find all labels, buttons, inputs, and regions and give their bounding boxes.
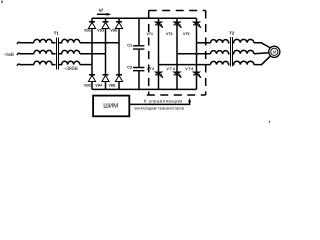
DC link wire with capacitors bbox=[138, 18, 140, 89]
wire secondary row3 to leg1 bbox=[80, 64, 92, 66]
transformer T1 primary winding row2 bbox=[34, 50, 56, 53]
DC bottom rail bbox=[92, 88, 197, 90]
svg-text:VD4: VD4 bbox=[95, 84, 102, 88]
svg-text:~380В: ~380В bbox=[63, 66, 78, 72]
diode VD1 bbox=[88, 22, 95, 29]
noise mark top-left bbox=[1, 1, 3, 4]
wire PWM to inverter bbox=[129, 100, 189, 104]
thyristor VT6 bbox=[193, 72, 201, 78]
capacitor C1 bbox=[133, 46, 144, 49]
transformer T1 core bbox=[57, 38, 59, 70]
svg-text:С1: С1 bbox=[127, 43, 132, 47]
PWM (ШИМ) box bbox=[93, 96, 129, 117]
transformer T2 secondary winding row1 bbox=[232, 39, 254, 42]
svg-text:Т1: Т1 bbox=[54, 31, 60, 36]
transformer T2 primary winding row3 bbox=[211, 61, 230, 64]
svg-text:VT3: VT3 bbox=[166, 32, 172, 36]
thyristor VT5 bbox=[193, 22, 201, 28]
svg-text:ШИМ: ШИМ bbox=[103, 102, 118, 109]
DC top rail bbox=[92, 17, 197, 19]
wire phase B input bbox=[17, 53, 34, 55]
wire inverter leg1 to T2 row3 bbox=[159, 64, 211, 66]
rectifier leg 2 bbox=[105, 18, 107, 89]
svg-text:VD6: VD6 bbox=[109, 84, 116, 88]
svg-text:К управляющим: К управляющим bbox=[144, 99, 183, 104]
svg-text:VD2: VD2 bbox=[84, 84, 91, 88]
svg-text:электродам транзисторов: электродам транзисторов bbox=[134, 106, 184, 111]
wire secondary row1 to leg3 bbox=[80, 42, 119, 44]
wire inverter leg3 to T2 row1 bbox=[197, 42, 211, 44]
wire secondary row2 to leg2 bbox=[80, 53, 106, 55]
svg-text:VD5: VD5 bbox=[110, 28, 117, 32]
transformer T1 secondary winding row2 bbox=[58, 50, 79, 53]
svg-text:VT2: VT2 bbox=[147, 67, 155, 71]
wire phase A input bbox=[17, 42, 34, 44]
transformer T2 core bbox=[231, 37, 233, 66]
svg-text:VT4: VT4 bbox=[167, 67, 176, 71]
wire inverter leg2 to T2 row2 bbox=[177, 53, 211, 55]
transformer T1 secondary winding row3 bbox=[58, 61, 79, 64]
svg-text:VD3: VD3 bbox=[97, 28, 104, 32]
thyristor VT4 bbox=[174, 72, 182, 78]
noise dot bottom right bbox=[269, 121, 270, 122]
svg-text:С2: С2 bbox=[127, 65, 132, 69]
svg-text:Т2: Т2 bbox=[229, 31, 235, 36]
thyristor VT2 bbox=[155, 72, 163, 78]
transformer T2 secondary winding row2 bbox=[232, 50, 254, 53]
svg-text:VD1: VD1 bbox=[84, 28, 91, 32]
inverter leg 1 bbox=[158, 18, 160, 89]
wire phase C input bbox=[17, 64, 34, 66]
diode VD3 bbox=[102, 22, 109, 29]
transformer T2 primary winding row2 bbox=[211, 51, 230, 54]
capacitor C2 bbox=[133, 68, 144, 71]
transformer T1 primary winding row1 bbox=[34, 39, 56, 42]
arrowhead up bbox=[188, 98, 191, 102]
wire T2 row1 to motor bbox=[254, 43, 270, 48]
diode VD2 bbox=[88, 75, 95, 82]
diode VD5 bbox=[115, 22, 122, 29]
transformer T1 secondary winding row1 bbox=[58, 39, 79, 42]
transformer T2 primary winding row1 bbox=[211, 40, 230, 43]
rectifier leg 3 bbox=[118, 18, 120, 89]
diode VD6 bbox=[115, 75, 122, 82]
motor M outer circle bbox=[269, 46, 280, 57]
junction dot top bbox=[138, 17, 140, 19]
rectifier leg 1 bbox=[91, 18, 93, 89]
svg-text:~6кВ: ~6кВ bbox=[4, 52, 15, 57]
thyristor VT3 bbox=[174, 22, 182, 28]
svg-text:Id: Id bbox=[99, 8, 103, 13]
wire T2 row3 to motor bbox=[254, 56, 270, 64]
transformer T1 primary winding row3 bbox=[34, 61, 56, 64]
svg-text:VT5: VT5 bbox=[183, 32, 189, 36]
junction dot bottom bbox=[138, 88, 140, 90]
inverter dashed box bbox=[149, 10, 206, 12]
inverter leg 2 bbox=[176, 18, 178, 89]
svg-text:М: М bbox=[273, 49, 277, 54]
motor M inner circle bbox=[271, 48, 278, 55]
diode VD4 bbox=[102, 75, 109, 82]
svg-text:VT1: VT1 bbox=[147, 32, 153, 36]
thyristor VT1 bbox=[155, 22, 163, 28]
svg-text:VT6: VT6 bbox=[185, 67, 194, 71]
transformer T2 secondary winding row3 bbox=[232, 61, 254, 64]
wire T2 row2 to motor bbox=[254, 53, 269, 54]
inverter leg 3 bbox=[196, 18, 198, 89]
Id arrow bbox=[97, 13, 110, 15]
